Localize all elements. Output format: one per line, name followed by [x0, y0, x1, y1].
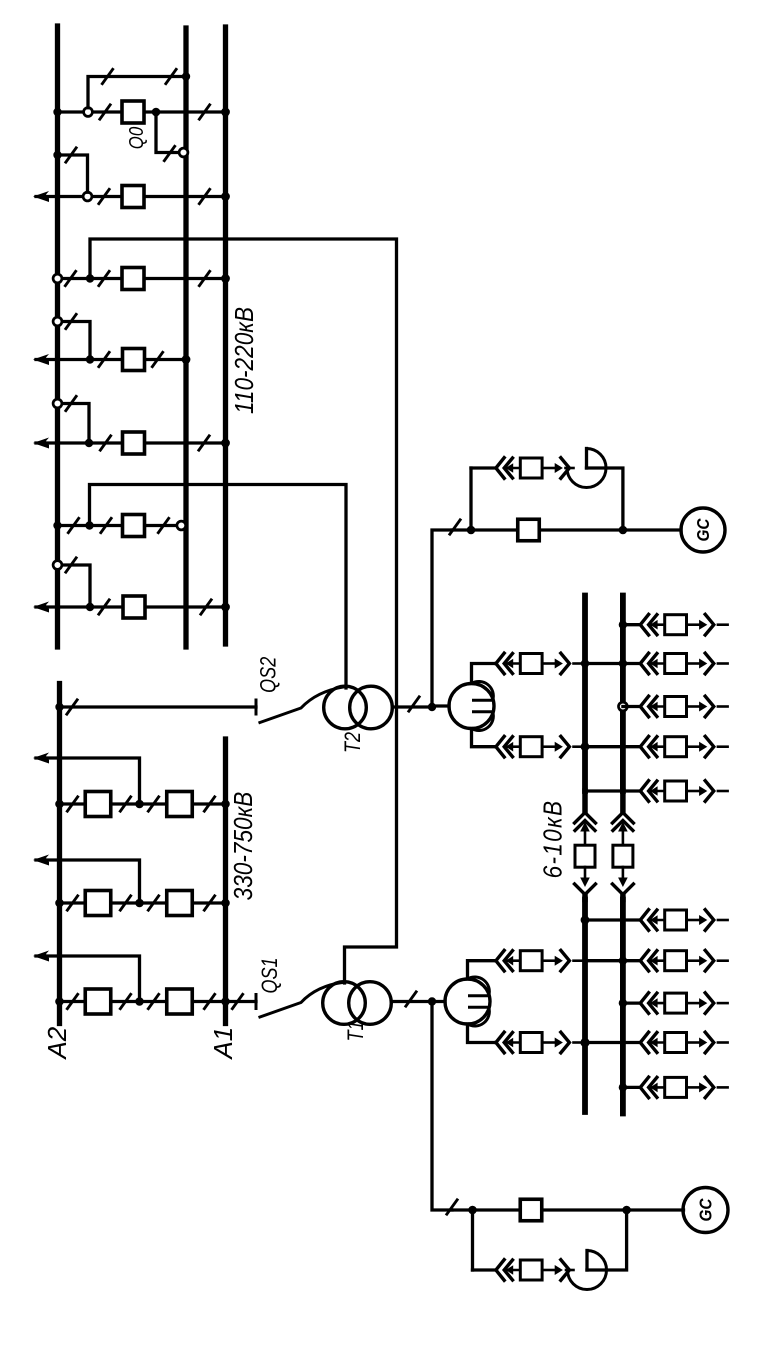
wire chain row 1	[60, 802, 226, 805]
feeder row 5 plug chevron left inner	[649, 781, 657, 801]
feeder row 1 plug chevron right	[705, 614, 714, 635]
sectionalizer bus II breaker box	[613, 845, 633, 867]
sectionalizer bus I plug chevron top inner	[575, 821, 595, 831]
label GC upper	[693, 518, 713, 542]
unit1 branch drawout wire shaft left	[506, 1269, 520, 1272]
feeder row 2 moving contact left	[650, 659, 658, 669]
node circle bay2	[83, 192, 92, 201]
reactor row 7 left wire right	[574, 959, 586, 962]
label T2	[341, 732, 365, 753]
junction bay3-W3	[221, 274, 230, 283]
disconnector slash bay3 right	[199, 270, 211, 287]
reactor row 2 left moving contact right	[555, 659, 563, 669]
disconnector slash bay3 tap	[65, 270, 77, 287]
unit1 branch drawout wire right	[566, 1269, 574, 1272]
feeder row 2 plug chevron right	[705, 653, 714, 674]
feeder row 9 plug chevron left outer	[640, 1032, 648, 1053]
reactor row 9 left moving contact right	[555, 1038, 563, 1048]
junction chain1 middle	[135, 800, 144, 809]
wire LR2 top lead	[472, 664, 497, 684]
unit1 branch drawout wire left	[473, 1268, 496, 1271]
breaker unit2	[518, 519, 540, 541]
feeder row 1 wire left	[623, 623, 640, 626]
feeder row 4 wire shaft left	[651, 745, 665, 748]
feeder row 7 plug chevron right	[705, 950, 714, 971]
wire T2 LV lead	[392, 705, 432, 708]
feeder row 7 wire shaft right	[687, 959, 700, 962]
node circle tap5-W1	[53, 399, 62, 408]
junction chain3-A1	[221, 997, 230, 1006]
transformer T2 winding 1	[324, 686, 367, 729]
feeder row 9 moving contact right	[699, 1038, 707, 1048]
svg-text:GC: GC	[693, 518, 713, 542]
feeder row 10 plug chevron right	[705, 1077, 714, 1098]
unit1 branch drawout plug chevron right	[561, 1260, 570, 1281]
wire chain row 3	[60, 1000, 226, 1003]
split reactor LR2 upper winding	[472, 681, 494, 700]
reactor row 4 left wire shaft right	[542, 745, 555, 748]
reactor unit1 tap	[585, 1251, 588, 1271]
feeder row 4 plug chevron left inner	[649, 737, 657, 757]
sectionalizer bus I moving contact bottom	[580, 878, 590, 888]
feeder row 1 moving contact right	[699, 620, 707, 630]
feeder row 8 moving contact left	[650, 998, 658, 1008]
feeder row 8 wire left	[623, 1001, 640, 1004]
split reactor LR1 lower winding	[468, 1007, 490, 1026]
unit2 branch drawout wire right	[566, 467, 574, 470]
bus A2 (330-750 kV)	[57, 684, 62, 1024]
junction chain2-A1	[221, 899, 230, 908]
svg-text:110-220кВ: 110-220кВ	[231, 307, 260, 414]
feeder row 8 plug chevron right	[705, 993, 714, 1014]
unit1 branch drawout breaker box	[520, 1260, 542, 1280]
disconnector slash bay1 left	[99, 104, 111, 121]
disconnector QS2 fixed contact	[255, 699, 258, 716]
bus W3 (110-220 kV bus)	[223, 27, 228, 644]
unit2 branch drawout plug chevron right	[561, 458, 570, 479]
sectionalizer bus I plug chevron top outer	[575, 813, 596, 824]
disconnector slash bypass left	[102, 68, 114, 85]
wire bay4 bypass tap	[58, 322, 91, 356]
feeder row 10 wire shaft right	[687, 1086, 700, 1089]
disconnector QS2 blade	[259, 687, 345, 723]
unit2 branch drawout plug chevron left outer	[496, 458, 504, 479]
breaker chain1 left	[85, 792, 111, 817]
feeder row 4 wire left	[623, 745, 640, 748]
reactor row 9 left wire shaft right	[542, 1041, 555, 1044]
reactor row 2 left wire left	[494, 662, 497, 665]
disconnector slash bay6 left	[100, 517, 112, 534]
node circle bay1 left	[84, 108, 93, 117]
junction row2-bus1	[581, 659, 589, 667]
disconnector QS1 fixed contact	[255, 993, 258, 1010]
bus section II lower	[620, 900, 626, 1114]
reactor row 7 left wire shaft left	[506, 959, 520, 962]
feeder row 8 moving contact right	[699, 998, 707, 1008]
sectionalizer bus II wire shaft top	[622, 830, 625, 845]
svg-text:Q0: Q0	[124, 126, 147, 149]
bus W2 (110-220 kV bus)	[183, 28, 188, 647]
label Q0	[124, 126, 147, 149]
junction bay1-W3	[221, 108, 230, 117]
feeder row 1 wire right	[718, 623, 728, 626]
feeder row 3 moving contact right	[699, 702, 707, 712]
feeder row 3 plug chevron left outer	[640, 696, 648, 717]
feeder row 3 breaker box	[665, 697, 687, 717]
reactor row 7 left plug chevron right	[561, 950, 570, 971]
disconnector slash bay2 right	[199, 188, 211, 205]
unit2 branch drawout moving contact left	[506, 463, 514, 473]
disconnector slash chain2 c	[148, 895, 160, 912]
junction bay7-W3	[221, 603, 230, 612]
junction unit1 A	[468, 1206, 477, 1215]
feeder row 8 plug chevron left outer	[640, 993, 648, 1014]
feeder row 7 wire left	[623, 959, 640, 962]
label 330-750 kV	[230, 792, 259, 901]
junction row1-bus2	[619, 621, 627, 629]
feeder row 6 wire shaft left	[651, 919, 665, 922]
wire feeder line 2 (330-750)	[36, 860, 140, 903]
svg-text:6-10кВ: 6-10кВ	[539, 800, 568, 879]
reactor row 9 left plug chevron left inner	[504, 1033, 512, 1053]
wire unit1 branch down	[471, 1210, 474, 1270]
feeder row 5 wire shaft left	[651, 790, 665, 793]
wire LR1 bottom lead	[468, 1024, 497, 1043]
breaker chain2 left	[85, 891, 111, 916]
feeder row 7 moving contact right	[699, 956, 707, 966]
feeder row 6 moving contact right	[699, 915, 707, 925]
label 6-10 kV	[539, 800, 568, 879]
wire QS1 row	[226, 1000, 257, 1003]
feeder row 9 wire right	[718, 1041, 728, 1044]
line arrow bay2	[33, 191, 49, 202]
disconnector slash bay3 left	[98, 270, 110, 287]
label QS2	[257, 657, 281, 693]
node circle tap7-W1	[53, 561, 62, 570]
sectionalizer bus I breaker box	[575, 845, 595, 867]
junction row7-bus2	[619, 957, 627, 965]
junction bay3 T1-line	[86, 274, 94, 282]
split reactor LR2 lower winding	[472, 712, 494, 731]
split reactor LR1 upper winding	[468, 977, 490, 996]
disconnector slash T2 lead	[408, 696, 420, 713]
disconnector slash unit2	[449, 519, 461, 536]
feeder row 3 wire shaft right	[687, 705, 700, 708]
label A2	[42, 1026, 72, 1060]
disconnector QS1 blade	[259, 982, 345, 1017]
sectionalizer bus I bus stub bottom	[582, 896, 588, 900]
unit2 branch drawout breaker box	[520, 458, 542, 478]
reactor row 2 left plug chevron left outer	[496, 653, 504, 674]
wire row9 bus link	[585, 1041, 623, 1044]
reactor row 7 left moving contact right	[555, 956, 563, 966]
sectionalizer bus II moving contact top	[618, 822, 628, 832]
junction bay6 T2-line	[85, 521, 93, 529]
label QS1	[258, 957, 282, 993]
disconnector slash bay7 right	[200, 599, 212, 616]
disconnector slash QS2	[66, 699, 78, 716]
line arrow bay5	[33, 438, 49, 449]
disconnector slash chain1 c	[148, 796, 160, 813]
reactor row 4 left wire left	[494, 745, 497, 748]
feeder row 1 plug chevron left inner	[649, 615, 657, 635]
unit1 branch drawout moving contact left	[506, 1265, 514, 1275]
wire QS2 row	[60, 705, 257, 708]
feeder row 6 plug chevron right	[705, 910, 714, 931]
line arrow feeder 2	[33, 855, 49, 866]
disconnector slash bypass right	[165, 68, 177, 85]
junction bay4 tap	[86, 355, 94, 363]
unit2 branch drawout wire shaft right	[542, 467, 555, 470]
wire bypass link	[88, 77, 186, 108]
reactor row 2 left wire shaft left	[506, 662, 520, 665]
junction row10-bus2	[619, 1083, 627, 1091]
feeder row 9 breaker box	[665, 1033, 687, 1053]
reactor row 4 left plug chevron left inner	[504, 737, 512, 757]
feeder row 2 wire left	[623, 662, 640, 665]
feeder row 8 wire shaft left	[651, 1002, 665, 1005]
svg-text:А1: А1	[208, 1027, 238, 1061]
wire chain row 2	[60, 901, 226, 904]
reactor row 4 left plug chevron right	[561, 736, 570, 757]
wire bay5 feeder	[36, 441, 226, 444]
breaker chain3 left	[85, 989, 111, 1014]
breaker bay7	[123, 596, 145, 618]
feeder row 6 wire shaft right	[687, 919, 700, 922]
feeder row 1 wire shaft left	[651, 623, 665, 626]
junction bay4-W2	[182, 355, 191, 364]
feeder row 9 wire shaft left	[651, 1041, 665, 1044]
feeder row 7 plug chevron left inner	[649, 951, 657, 971]
wire unit2 bay	[452, 528, 681, 531]
unit2 branch drawout wire left	[471, 466, 496, 469]
junction chain2 middle	[135, 899, 144, 908]
feeder row 8 wire right	[718, 1002, 728, 1005]
reactor row 9 left wire left	[494, 1041, 497, 1044]
wire bay7 feeder	[36, 605, 226, 608]
breaker unit1	[520, 1199, 542, 1221]
wire feeder line 1 (330-750)	[36, 758, 140, 804]
junction unit1 B	[622, 1206, 631, 1215]
svg-text:Т1: Т1	[344, 1020, 368, 1041]
label 110-220 kV	[231, 307, 260, 414]
reactor row 2 left breaker box	[520, 654, 542, 674]
feeder row 6 breaker box	[665, 910, 687, 930]
breaker chain1 right	[167, 792, 193, 817]
reactor row 9 left breaker box	[520, 1033, 542, 1053]
junction T1 lead	[428, 997, 436, 1005]
sectionalizer bus I plug chevron bottom	[575, 884, 596, 895]
disconnector slash bay5 right	[198, 435, 210, 452]
junction bay2-W3	[221, 192, 230, 201]
feeder row 1 breaker box	[665, 615, 687, 635]
unit1 branch drawout moving contact right	[555, 1265, 563, 1275]
reactor row 7 left wire shaft right	[542, 959, 555, 962]
junction T2 lead	[428, 703, 436, 711]
junction chain3-A2	[55, 997, 64, 1006]
sectionalizer bus I wire shaft bottom	[584, 867, 587, 879]
generator GC lower circle	[683, 1188, 728, 1233]
breaker chain2 right	[167, 891, 193, 916]
unit1 branch drawout plug chevron left inner	[504, 1260, 512, 1280]
reactor row 2 left wire right	[574, 662, 586, 665]
reactor unit1 arc	[568, 1251, 607, 1290]
wire LR1 top lead	[468, 961, 497, 979]
disconnector slash tap2	[65, 147, 77, 164]
feeder row 9 plug chevron right	[705, 1032, 714, 1053]
reactor row 4 left moving contact right	[555, 742, 563, 752]
wire unit2 branch out	[587, 468, 623, 530]
feeder row 4 moving contact right	[699, 742, 707, 752]
generator GC upper circle	[681, 508, 725, 552]
disconnector slash bay7 left	[98, 599, 110, 616]
unit2 branch drawout plug chevron left inner	[504, 458, 512, 478]
junction bypass-W2	[182, 72, 190, 80]
feeder row 4 wire shaft right	[687, 745, 700, 748]
wire T2 HV connection	[90, 485, 347, 689]
junction bay5 tap	[85, 439, 93, 447]
junction unit2 B	[619, 526, 628, 535]
reactor row 2 left plug chevron left inner	[504, 654, 512, 674]
reactor row 7 left moving contact left	[506, 956, 514, 966]
wire drop link	[156, 112, 178, 153]
feeder row 5 plug chevron left outer	[640, 781, 648, 802]
feeder row 7 moving contact left	[650, 956, 658, 966]
bus section II upper	[620, 596, 626, 792]
line arrow bay4	[33, 354, 49, 365]
sectionalizer bus I moving contact top	[580, 822, 590, 832]
feeder row 7 wire shaft left	[651, 959, 665, 962]
junction unit2 A	[467, 526, 476, 535]
reactor row 4 left wire right	[574, 745, 586, 748]
feeder row 3 moving contact left	[650, 702, 658, 712]
feeder row 4 moving contact left	[650, 742, 658, 752]
sectionalizer bus II plug chevron bottom	[612, 884, 633, 895]
wire bay7 bypass tap	[58, 565, 91, 603]
wire bay1 (coupler Q0)	[58, 110, 226, 113]
split reactor LR1 circle	[445, 979, 490, 1024]
feeder row 4 wire right	[718, 745, 728, 748]
label T1	[344, 1020, 368, 1041]
feeder row 1 plug chevron left outer	[640, 614, 648, 635]
feeder row 2 wire shaft right	[687, 662, 700, 665]
wire bay2 bypass tap	[58, 155, 88, 192]
junction row9-bus1	[580, 1038, 589, 1047]
wire feeder line 3 (330-750)	[36, 956, 140, 1002]
sectionalizer bus II bus stub bottom	[620, 896, 626, 900]
disconnector slash bay4 right	[152, 351, 164, 368]
wire unit2 riser	[432, 530, 452, 706]
feeder row 5 moving contact right	[699, 786, 707, 796]
wire row7 bus link	[585, 959, 623, 962]
disconnector slash QS1	[232, 993, 244, 1010]
feeder row 9 plug chevron left inner	[649, 1033, 657, 1053]
wire T1 HV connection	[90, 239, 397, 983]
feeder row 6 plug chevron left inner	[649, 910, 657, 930]
feeder row 2 wire shaft left	[651, 662, 665, 665]
breaker bay2	[122, 186, 144, 208]
feeder row 4 plug chevron right	[705, 736, 714, 757]
feeder row 7 breaker box	[665, 951, 687, 971]
reactor row 9 left wire shaft left	[506, 1041, 520, 1044]
disconnector slash bay6 right	[158, 517, 170, 534]
feeder row 3 plug chevron right	[705, 696, 714, 717]
disconnector slash chain2 b	[120, 895, 132, 912]
breaker bay3	[122, 268, 144, 290]
disconnector slash chain3 a	[67, 993, 79, 1010]
bus section I upper	[582, 596, 588, 792]
junction row2-bus2	[619, 659, 627, 667]
feeder row 7 wire right	[718, 959, 728, 962]
feeder row 10 moving contact right	[699, 1082, 707, 1092]
disconnector slash chain2 a	[67, 895, 79, 912]
svg-text:330-750кВ: 330-750кВ	[230, 792, 259, 901]
breaker bay5	[123, 432, 145, 454]
sectionalizer bus II plug chevron top inner	[613, 821, 633, 831]
svg-text:Т2: Т2	[341, 732, 365, 753]
wire row4 bus link	[585, 745, 623, 748]
reactor unit2 arc	[567, 449, 606, 488]
sectionalizer bus II plug chevron top outer	[612, 813, 633, 824]
feeder row 6 wire left	[623, 918, 640, 921]
feeder row 2 breaker box	[665, 654, 687, 674]
disconnector slash chain3 d	[204, 993, 216, 1010]
feeder row 10 wire right	[718, 1086, 728, 1089]
breaker bay4	[123, 349, 145, 371]
node circle bay3-W1	[53, 274, 62, 283]
sectionalizer bus II wire shaft bottom	[622, 867, 625, 879]
reactor row 4 left wire shaft left	[506, 745, 520, 748]
line arrow bay7	[33, 602, 49, 613]
reactor row 2 left plug chevron right	[561, 653, 570, 674]
junction chain3 middle	[135, 997, 144, 1006]
disconnector slash chain1 a	[67, 796, 79, 813]
wire LR2 bottom lead	[472, 729, 497, 747]
junction row6-bus1	[581, 916, 590, 925]
junction chain2-A2	[55, 899, 64, 908]
feeder row 5 breaker box	[665, 781, 687, 801]
transformer T2 winding 2	[350, 686, 393, 729]
line arrow feeder 3	[33, 951, 49, 962]
disconnector slash bay2 left	[98, 188, 110, 205]
disconnector slash unit1	[446, 1199, 458, 1216]
wire bay3 (T1 bay)	[58, 277, 226, 280]
disconnector slash T1 lead	[405, 991, 417, 1008]
svg-text:QS2: QS2	[257, 657, 281, 693]
wire LR2 input	[432, 704, 449, 707]
feeder row 4 plug chevron left outer	[640, 736, 648, 757]
reactor row 4 left moving contact left	[506, 742, 514, 752]
wire bay2 feeder	[36, 195, 226, 198]
feeder row 6 wire right	[718, 919, 728, 922]
junction row8-bus2	[619, 999, 627, 1007]
feeder row 9 moving contact left	[650, 1038, 658, 1048]
feeder row 1 wire shaft right	[687, 623, 700, 626]
disconnector slash chain3 b	[120, 993, 132, 1010]
bus A1 (330-750 kV)	[223, 739, 228, 1024]
feeder row 5 wire right	[718, 790, 728, 793]
feeder row 5 plug chevron right	[705, 781, 714, 802]
junction bay1-W1	[53, 108, 61, 116]
feeder row 2 plug chevron left inner	[649, 654, 657, 674]
disconnector slash chain2 d	[204, 895, 216, 912]
reactor row 9 left moving contact left	[506, 1038, 514, 1048]
feeder row 10 wire left	[623, 1086, 640, 1089]
feeder row 10 moving contact left	[650, 1083, 658, 1093]
feeder row 10 plug chevron left inner	[649, 1077, 657, 1097]
junction QS2-A2	[55, 703, 63, 711]
breaker Q0	[122, 101, 144, 123]
